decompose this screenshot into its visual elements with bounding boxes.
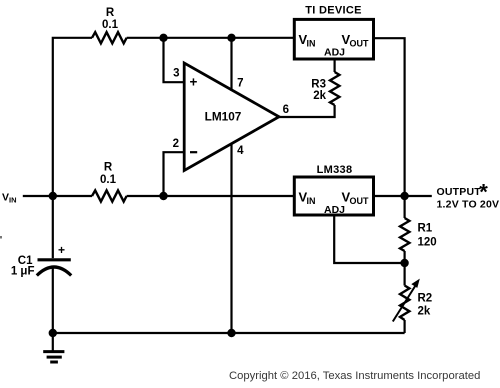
svg-text:LM338: LM338 bbox=[317, 164, 353, 176]
svg-text:3: 3 bbox=[173, 68, 179, 80]
scan speck at left edge bbox=[0, 236, 2, 239]
resistor R3 zigzag bbox=[330, 72, 339, 105]
svg-text:OUT: OUT bbox=[350, 196, 370, 206]
wire VIN input lead bbox=[23, 195, 92, 197]
svg-text:OUTPUT: OUTPUT bbox=[437, 186, 482, 198]
svg-text:Copyright © 2016, Texas Instru: Copyright © 2016, Texas Instruments Inco… bbox=[229, 370, 480, 382]
ground symbol bbox=[43, 333, 64, 362]
svg-text:V: V bbox=[2, 192, 9, 204]
label OUTPUT * bbox=[437, 180, 489, 205]
svg-text:0.1: 0.1 bbox=[102, 19, 119, 31]
resistor R (bottom) zigzag bbox=[92, 190, 127, 201]
svg-text:6: 6 bbox=[283, 104, 289, 116]
resistor R1 zigzag bbox=[400, 218, 409, 251]
svg-text:+: + bbox=[58, 243, 65, 257]
svg-text:IN: IN bbox=[307, 196, 316, 206]
regulator U3 LM338 box bbox=[294, 164, 373, 216]
svg-text:OUT: OUT bbox=[350, 39, 370, 49]
wire left rail upper segment to C1 bbox=[52, 196, 54, 258]
wire pin 7 bbox=[230, 38, 232, 91]
svg-text:7: 7 bbox=[237, 78, 243, 90]
wire LM338 VOUT to output node bbox=[372, 195, 405, 197]
node junction dot VIN/left rail bbox=[49, 192, 57, 200]
svg-text:1 μF: 1 μF bbox=[11, 266, 35, 278]
svg-text:ADJ: ADJ bbox=[324, 204, 345, 216]
wire R2 to bottom rail bbox=[404, 320, 406, 333]
node junction dot pin2/VIN rail bbox=[159, 192, 167, 200]
wire bottom rail bbox=[53, 332, 405, 334]
svg-text:IN: IN bbox=[9, 196, 17, 205]
svg-text:2k: 2k bbox=[313, 90, 326, 102]
wire TI DEVICE ADJ stub bbox=[334, 59, 336, 72]
svg-text:R3: R3 bbox=[311, 79, 326, 91]
wire output node to R1 bbox=[404, 196, 406, 218]
op-amp U1 LM107 triangle bbox=[184, 63, 279, 171]
label VIN input bbox=[2, 192, 17, 205]
svg-text:0.1: 0.1 bbox=[100, 174, 117, 186]
svg-text:R: R bbox=[104, 162, 113, 174]
wire VIN rail to LM338 VIN bbox=[127, 195, 296, 197]
wire LM338 ADJ to node bbox=[334, 215, 404, 263]
wire pin 3 connection bbox=[164, 38, 185, 82]
svg-text:1.2V TO 20V: 1.2V TO 20V bbox=[437, 198, 500, 210]
svg-text:2k: 2k bbox=[418, 306, 431, 318]
wire TI DEVICE VOUT to right rail bbox=[372, 38, 405, 196]
resistor R (top) zigzag bbox=[92, 32, 127, 43]
wire R3 bottom to op-amp output pin 6 bbox=[278, 105, 335, 117]
node junction dot pin3/top rail bbox=[159, 34, 167, 42]
capacitor C1 bbox=[11, 243, 71, 278]
node junction dot ADJ/R1/R2 bbox=[400, 259, 408, 267]
wire C1 to bottom rail bbox=[52, 268, 54, 333]
svg-text:ADJ: ADJ bbox=[324, 47, 345, 59]
node junction dot pin7/top rail bbox=[227, 34, 235, 42]
wire R1 to ADJ node bbox=[404, 251, 406, 263]
node junction dot pin4/bottom rail bbox=[227, 329, 235, 337]
wire output lead bbox=[405, 195, 432, 197]
wire node to R2 bbox=[404, 263, 406, 286]
svg-text:R2: R2 bbox=[418, 293, 433, 305]
node junction dot output bbox=[400, 192, 408, 200]
svg-text:+: + bbox=[190, 75, 198, 90]
wire pin 4 down to bottom rail bbox=[230, 144, 232, 334]
svg-text:LM107: LM107 bbox=[205, 110, 242, 124]
svg-text:IN: IN bbox=[307, 39, 316, 49]
node junction dot ground/bottom rail bbox=[49, 329, 57, 337]
svg-text:R: R bbox=[106, 7, 115, 19]
potentiometer R2 zigzag with arrow bbox=[393, 279, 420, 322]
svg-text:TI DEVICE: TI DEVICE bbox=[305, 5, 362, 17]
svg-text:120: 120 bbox=[418, 237, 437, 249]
regulator U2 TI DEVICE box bbox=[294, 5, 373, 60]
wire pin 2 connection bbox=[164, 152, 185, 196]
wire top-left: left rail and top rail to resistor R bbox=[53, 38, 92, 196]
wire top rail right segment to TI DEVICE VIN bbox=[127, 37, 296, 39]
svg-text:4: 4 bbox=[237, 145, 244, 157]
svg-text:R1: R1 bbox=[418, 223, 433, 235]
svg-text:2: 2 bbox=[173, 138, 179, 150]
